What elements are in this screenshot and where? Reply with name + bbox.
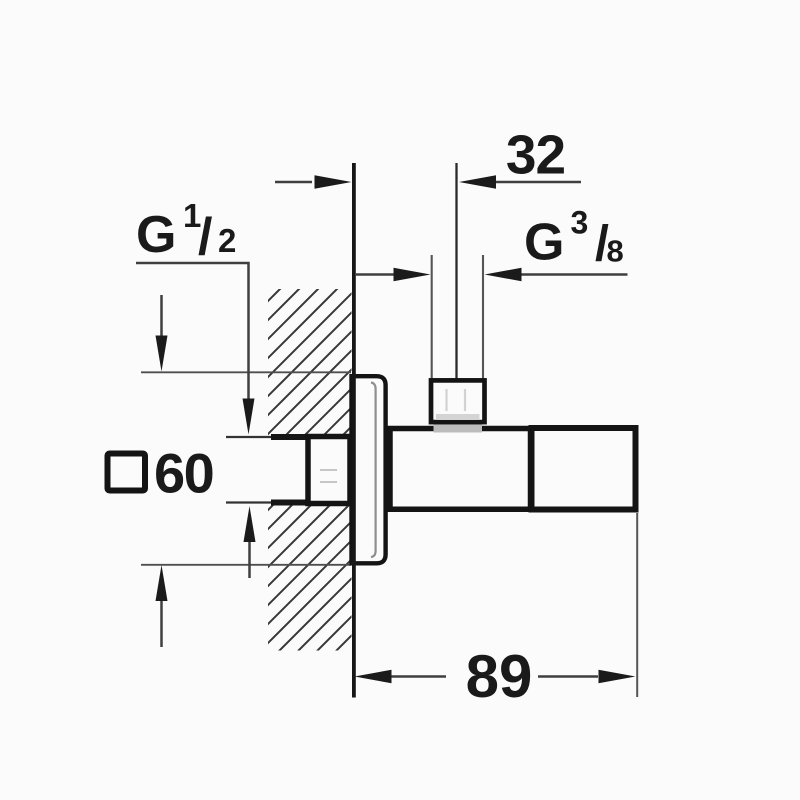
svg-text:G: G [136, 206, 176, 264]
svg-text:2: 2 [218, 222, 236, 259]
svg-text:G: G [524, 214, 564, 272]
svg-text:/: / [198, 208, 212, 266]
svg-text:60: 60 [154, 442, 213, 505]
svg-text:89: 89 [466, 643, 533, 710]
svg-text:32: 32 [506, 124, 565, 186]
svg-text:3: 3 [571, 205, 589, 241]
svg-text:8: 8 [607, 234, 624, 269]
